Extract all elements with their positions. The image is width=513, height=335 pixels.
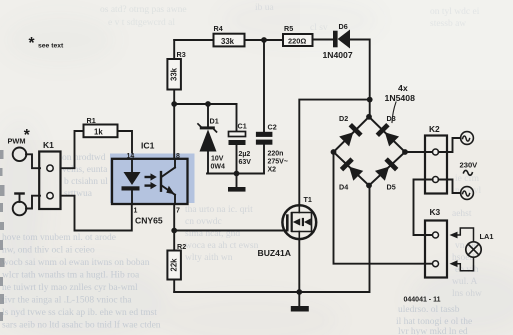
svg-text:7: 7	[176, 208, 180, 215]
resistor R3 33k	[173, 40, 175, 59]
node drain junction	[367, 97, 373, 103]
optocoupler IC1 CNY65	[110, 154, 195, 205]
svg-text:R5: R5	[284, 24, 293, 33]
label 4x 1N5408	[385, 83, 416, 103]
wire T1 source	[298, 239, 300, 292]
diode D5	[375, 157, 399, 181]
svg-text:e v t sdtgewcrd al: e v t sdtgewcrd al	[108, 18, 175, 28]
svg-text:os atd? otrng pas awne: os atd? otrng pas awne	[100, 5, 187, 15]
node bridge left	[331, 149, 337, 155]
node pin7 junction	[171, 228, 177, 234]
wire D6 to bridge top	[350, 40, 370, 117]
svg-text:velns, eunta: velns, eunta	[62, 165, 108, 175]
node C2 top	[261, 37, 267, 43]
svg-text:srttwua: srttwua	[64, 189, 93, 199]
diode D4	[340, 157, 364, 181]
PWM input terminal	[13, 148, 27, 162]
star see-text note	[29, 35, 65, 52]
svg-text:C2: C2	[268, 123, 277, 132]
connector K3	[425, 221, 447, 278]
node R3/pin8	[171, 101, 177, 107]
IC1 light arrows	[145, 173, 157, 189]
svg-text:cn ovwdc: cn ovwdc	[185, 217, 222, 227]
node C1 bottom	[234, 171, 240, 177]
svg-text:D3: D3	[387, 114, 396, 123]
svg-text:C1: C1	[238, 122, 247, 131]
node bridge top	[366, 114, 372, 120]
svg-text:10V: 10V	[211, 155, 224, 162]
connector K2	[425, 136, 447, 194]
svg-text:X2: X2	[268, 167, 277, 174]
wire common to K1 pin	[26, 196, 40, 209]
svg-text:aehst: aehst	[452, 209, 472, 219]
svg-text:R3: R3	[177, 50, 186, 59]
node bridge right	[402, 149, 408, 155]
arrow to K3 top	[450, 228, 474, 242]
svg-text:0W4: 0W4	[211, 163, 226, 170]
wire node to IC1 pin8	[173, 104, 175, 159]
diode D2	[339, 123, 363, 147]
common terminal tick symbol	[14, 192, 25, 202]
wire gate to T1	[174, 230, 287, 232]
svg-text:LA1: LA1	[480, 232, 494, 241]
diode D6 1N4007	[333, 30, 350, 49]
svg-text:wlty aith wn: wlty aith wn	[185, 253, 233, 263]
svg-text:CNY65: CNY65	[135, 216, 163, 226]
label D4	[339, 183, 348, 192]
svg-text:ie cfm: ie cfm	[455, 173, 480, 184]
svg-text:D6: D6	[339, 22, 348, 31]
wire K1 top to R1	[61, 131, 84, 168]
svg-text:230V: 230V	[460, 161, 479, 170]
svg-text:*: *	[29, 35, 36, 52]
resistor R2 22k	[173, 231, 175, 251]
svg-text:stessb aw: stessb aw	[430, 19, 466, 29]
svg-text:1N5408: 1N5408	[385, 93, 416, 103]
top rail R3 to R4	[174, 39, 213, 41]
label D2	[339, 114, 348, 123]
wire R4 to R5	[245, 39, 284, 41]
svg-text:T1: T1	[304, 195, 312, 204]
svg-text:BUZ41A: BUZ41A	[258, 248, 291, 258]
svg-text:1: 1	[134, 208, 138, 215]
svg-text:on hrodtwd: on hrodtwd	[62, 153, 106, 163]
svg-text:8: 8	[176, 153, 180, 160]
wire K2 to mains top	[439, 138, 461, 152]
resistor R4 33k	[214, 34, 245, 47]
svg-text:see text: see text	[38, 43, 64, 50]
svg-text:K1: K1	[43, 140, 54, 150]
svg-text:044041 - 11: 044041 - 11	[404, 297, 441, 304]
svg-text:14: 14	[127, 153, 135, 160]
capacitor C1 2u2	[236, 104, 238, 132]
svg-text:K2: K2	[429, 124, 440, 134]
IC1 internal LED	[122, 159, 141, 204]
svg-text:R4: R4	[214, 24, 223, 33]
common input terminal	[13, 202, 27, 216]
svg-text:63V: 63V	[239, 159, 252, 166]
svg-text:2µ2: 2µ2	[239, 151, 251, 158]
svg-text:R1: R1	[87, 116, 96, 125]
connector K1	[39, 152, 60, 210]
wire K2 to mains bottom	[439, 180, 461, 194]
wire R1 to IC1 pin14	[118, 131, 133, 159]
svg-text:4x: 4x	[398, 83, 408, 93]
svg-text:1N4007: 1N4007	[323, 50, 353, 60]
svg-text:tha urto na ic. qrit: tha urto na ic. qrit	[185, 205, 253, 215]
resistor R1 1k	[84, 125, 118, 138]
wire PWM to K1 pin	[26, 154, 40, 168]
ground symbol aux	[228, 174, 246, 192]
ground symbol main	[291, 292, 309, 312]
label D3	[387, 114, 396, 123]
svg-text:33k: 33k	[169, 67, 178, 81]
svg-text:D5: D5	[387, 183, 396, 192]
transistor T1 BUZ41A	[282, 205, 316, 239]
wire R5 to D6	[313, 39, 334, 41]
label 044041-11	[404, 297, 441, 304]
bottom wire rail	[174, 186, 369, 293]
wire IC1 pin7 to node / R2 / gate	[173, 204, 175, 231]
svg-text:D1: D1	[210, 116, 219, 125]
svg-text:K3: K3	[430, 207, 441, 217]
wire bridge left to K3	[334, 152, 433, 264]
diode D3	[376, 123, 400, 147]
svg-text:275V~: 275V~	[268, 159, 288, 166]
node D1 top	[205, 101, 211, 107]
svg-text:D2: D2	[339, 114, 348, 123]
svg-text:33k: 33k	[221, 37, 235, 46]
capacitor C2 220n	[263, 40, 265, 132]
arrow to K3 bottom	[450, 257, 474, 271]
svg-text:D4: D4	[339, 183, 348, 192]
resistor R5 220R	[283, 34, 313, 46]
wire K1 bottom to IC1 pin1	[61, 196, 132, 231]
svg-text:*: *	[24, 127, 31, 144]
label D5	[387, 183, 396, 192]
wire lower mini rail	[207, 173, 264, 175]
node bridge bottom	[366, 183, 372, 189]
wire bridge right to K2	[405, 151, 433, 153]
mains source bottom	[461, 187, 474, 200]
svg-text:IC1: IC1	[141, 141, 155, 151]
svg-text:woca ea ah ct ewsn: woca ea ah ct ewsn	[185, 241, 259, 251]
wire K2 bottom to K3 top	[414, 180, 433, 236]
bridge rectifier wires	[334, 117, 406, 186]
IC1 phototransistor	[160, 159, 175, 204]
mains source top	[461, 132, 474, 145]
svg-text:22k: 22k	[170, 258, 179, 272]
label 230V	[460, 161, 479, 170]
svg-text:220Ω: 220Ω	[288, 37, 306, 46]
svg-text:1k: 1k	[94, 128, 103, 137]
node ground junction	[296, 289, 302, 295]
leader line 1N5408	[392, 102, 396, 123]
svg-text:R2: R2	[177, 242, 186, 251]
svg-text:220n: 220n	[268, 151, 284, 158]
wire T1 drain	[299, 100, 369, 206]
lamp LA1	[466, 242, 481, 257]
zener D1	[207, 104, 209, 126]
wire node104 rail	[174, 103, 236, 105]
svg-text:on tyl wdc ei: on tyl wdc ei	[430, 7, 480, 17]
